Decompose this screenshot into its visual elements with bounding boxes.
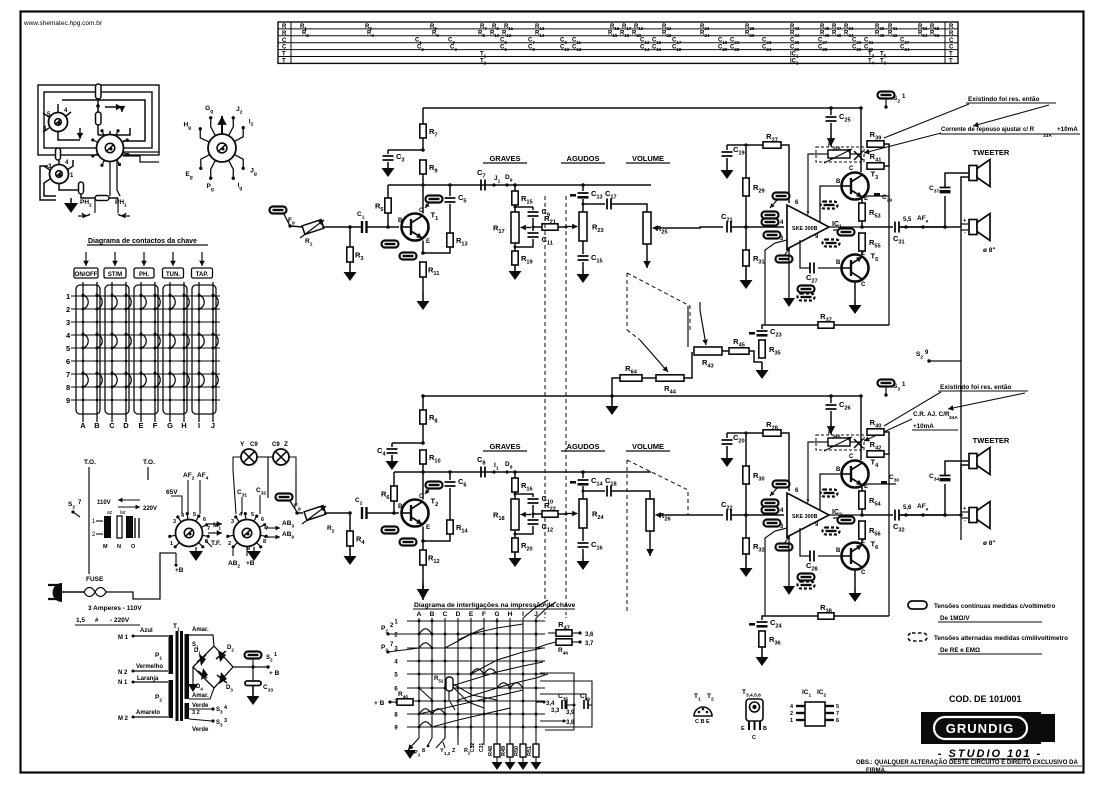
matrix grid verticals — [418, 618, 420, 738]
svg-text:3 Amperes - 110V: 3 Amperes - 110V — [88, 605, 142, 612]
svg-text:1,2: 1,2 — [444, 751, 451, 756]
volume pot R2 slanted — [304, 506, 326, 521]
resistor R16 — [514, 472, 516, 478]
svg-text:R: R — [282, 31, 287, 37]
svg-text:2: 2 — [790, 711, 793, 717]
svg-text:1: 1 — [790, 718, 793, 724]
capacitor C17 to volume — [583, 203, 605, 205]
svg-text:8: 8 — [422, 748, 425, 754]
pills below IC2 — [798, 574, 815, 581]
rotary power switch M1 — [176, 520, 203, 547]
transistor T1 — [402, 214, 429, 241]
svg-text:C: C — [282, 38, 287, 44]
svg-text:C: C — [849, 166, 854, 172]
svg-text:6: 6 — [203, 517, 206, 523]
svg-text:C: C — [949, 38, 954, 44]
resistor R41 — [867, 163, 884, 169]
fan wires from R52 — [453, 684, 497, 700]
svg-text:7: 7 — [207, 526, 210, 532]
IC pin3 wire — [765, 240, 787, 325]
diode D3 — [219, 672, 227, 684]
matrix dots — [418, 620, 421, 623]
svg-text:D: D — [123, 421, 129, 430]
contact bumps — [83, 295, 88, 309]
resistor R42 — [867, 451, 884, 457]
svg-text:VOLUME: VOLUME — [632, 154, 664, 163]
measure pills around IC1 — [773, 193, 790, 200]
resistor R5 base bias — [387, 185, 389, 198]
rotary switch 2 — [234, 520, 261, 547]
capacitor C19 — [726, 145, 728, 150]
svg-text:O: O — [131, 544, 136, 550]
svg-text:A: A — [80, 421, 86, 430]
plug — [53, 583, 63, 602]
matrix right side wires — [540, 673, 574, 730]
wiper wire to output — [663, 227, 723, 228]
svg-text:T: T — [949, 59, 953, 65]
svg-text:3 2: 3 2 — [192, 710, 200, 716]
svg-text:1: 1 — [170, 541, 173, 547]
capacitor C5 — [449, 185, 451, 196]
svg-text:8: 8 — [263, 539, 266, 545]
emitter resistor R54 — [861, 486, 863, 491]
capacitor C13 treble in — [582, 185, 584, 191]
capacitor C9 — [532, 207, 534, 210]
svg-text:ø 8": ø 8" — [983, 247, 995, 254]
svg-text:+ B: + B — [374, 700, 385, 707]
svg-text:3: 3 — [173, 519, 176, 525]
legend dashed pill — [908, 633, 927, 641]
driver network R33A R39 R41 — [860, 108, 862, 172]
svg-text:De RE e EMΩ: De RE e EMΩ — [940, 647, 980, 654]
resistor R20 — [514, 530, 516, 538]
svg-text:Z: Z — [284, 441, 288, 448]
pot R52 inside matrix — [446, 677, 453, 691]
svg-text:Verde: Verde — [192, 703, 209, 709]
potentiometer R17 bass — [514, 205, 516, 212]
T4 base wire — [820, 474, 841, 510]
secondary winding S2-S3 — [185, 703, 190, 719]
svg-text:3,3: 3,3 — [551, 708, 560, 714]
capacitor C23 — [762, 325, 765, 329]
svg-text:C: C — [443, 611, 448, 618]
svg-text:34A: 34A — [949, 415, 958, 421]
svg-text:F: F — [482, 611, 486, 618]
capacitor C28 — [818, 555, 841, 557]
svg-text:-: - — [964, 518, 966, 524]
svg-text:B: B — [398, 504, 403, 510]
resistor R46b — [556, 639, 572, 645]
svg-text:6: 6 — [66, 357, 70, 366]
emitter chain R12 — [422, 527, 424, 542]
resistor R30 — [745, 433, 747, 466]
svg-text:M: M — [103, 544, 108, 550]
capacitor C14 treble in — [582, 472, 584, 478]
measure pill collector with arrow — [426, 196, 443, 203]
svg-text:ST/M: ST/M — [108, 272, 122, 278]
svg-text:3,8: 3,8 — [566, 720, 575, 726]
svg-text:C: C — [109, 421, 115, 430]
DIN connector rotary — [208, 134, 236, 162]
selector contacts — [104, 516, 111, 538]
IC2 pin7 wire up to R34A — [808, 442, 818, 502]
svg-text:C.R. AJ. C/R: C.R. AJ. C/R — [913, 411, 950, 418]
svg-text:+10mA: +10mA — [1057, 126, 1078, 133]
bridge rectifier diamond — [193, 646, 233, 688]
capacitor C22 input — [727, 510, 731, 521]
capacitor C21 input — [727, 222, 731, 233]
diode D4 — [201, 668, 208, 680]
svg-text:R50: R50 — [514, 746, 520, 756]
svg-text:B: B — [836, 260, 841, 266]
svg-text:C9: C9 — [250, 442, 258, 448]
wire from selector cluster to lower input — [267, 457, 269, 498]
svg-text:FUSE: FUSE — [86, 576, 104, 583]
feedback line — [888, 166, 890, 325]
balance pot R43 — [694, 347, 722, 355]
svg-text:Diagrama de contactos da c: Diagrama de contactos da chave — [88, 238, 197, 245]
trimmer R33A — [828, 150, 850, 158]
resistor R38 feedback — [818, 613, 834, 619]
resistor R45 — [722, 350, 729, 352]
svg-text:G: G — [494, 611, 499, 618]
gang dashed lines upper — [544, 196, 546, 610]
volume gang dashed — [626, 273, 628, 330]
svg-text:65V: 65V — [166, 489, 178, 496]
svg-text:Existindo foi res. então: Existindo foi res. então — [968, 96, 1040, 103]
speaker tweeter upper2 — [969, 220, 977, 235]
svg-text:B: B — [430, 611, 435, 618]
svg-text:110V: 110V — [97, 500, 111, 506]
feedback line lower — [888, 454, 890, 616]
svg-text:+B: +B — [175, 567, 184, 574]
svg-text:2: 2 — [66, 305, 70, 314]
svg-text:D: D — [456, 611, 461, 618]
resistor R35 — [759, 340, 765, 358]
resistor R47 — [556, 630, 572, 636]
svg-text:R51: R51 — [527, 746, 533, 756]
matrix bottom left terminals — [408, 738, 419, 750]
svg-text:T: T — [282, 59, 286, 65]
svg-text:+: + — [963, 218, 966, 224]
diode D2 — [218, 650, 226, 662]
IC1 pin7 wire up to R33A — [808, 154, 818, 214]
svg-text:3: 3 — [66, 318, 70, 327]
svg-text:Y: Y — [240, 441, 245, 448]
svg-text:J: J — [211, 421, 215, 430]
capacitor C20 — [726, 433, 728, 438]
resistor R13 — [449, 204, 451, 233]
IC1 left gnd drop — [788, 249, 790, 298]
svg-text:B: B — [94, 421, 100, 430]
potentiometer R24 treble — [582, 491, 584, 499]
svg-text:PH.: PH. — [139, 272, 149, 278]
input from selector F9 — [270, 207, 287, 214]
svg-text:5: 5 — [836, 704, 839, 710]
svg-text:GRUNDIG: GRUNDIG — [946, 721, 1014, 736]
svg-text:ø 8": ø 8" — [983, 540, 995, 547]
switch label TAP. — [201, 252, 203, 266]
switch label ON/OFF — [85, 252, 87, 266]
rotary switch S-b — [50, 165, 69, 184]
svg-text:+B: +B — [246, 560, 255, 567]
speaker feed lower — [943, 513, 947, 517]
svg-text:www.shematec.hpg.com.br: www.shematec.hpg.com.br — [23, 20, 103, 27]
svg-text:6: 6 — [261, 517, 264, 523]
svg-text:E: E — [861, 539, 865, 545]
svg-text:Corrente de repouso ajustar c: Corrente de repouso ajustar c/ R — [941, 127, 1035, 133]
bridge output to +B — [233, 666, 268, 668]
resistor R36 — [759, 631, 765, 647]
capacitor C8 coupling — [481, 467, 485, 478]
svg-text:8: 8 — [66, 383, 70, 392]
volume pot R26 — [646, 499, 654, 531]
svg-text:TAP.: TAP. — [196, 272, 209, 278]
svg-text:T: T — [282, 52, 286, 58]
svg-text:Amar.: Amar. — [192, 627, 209, 633]
svg-text:A: A — [417, 611, 422, 618]
matrix diagonal wires — [523, 600, 548, 618]
svg-text:GRAVES: GRAVES — [489, 154, 520, 163]
title diagrama de interligacoes — [422, 585, 424, 600]
component cross-reference table — [278, 22, 958, 63]
svg-text:5: 5 — [193, 512, 196, 518]
capacitor C6 — [449, 472, 451, 480]
resistor R28 — [727, 432, 763, 434]
svg-text:VOLUME: VOLUME — [632, 442, 664, 451]
resistor R56 — [859, 521, 865, 539]
balance wiper arrow — [640, 340, 668, 372]
svg-text:I: I — [198, 421, 200, 430]
svg-text:Verde: Verde — [192, 727, 209, 733]
svg-text:- STUDIO 101 -: - STUDIO 101 - — [938, 748, 1042, 760]
svg-text:E: E — [426, 239, 430, 245]
capacitor C29 bootstrap — [838, 229, 855, 236]
resistor R37 feedback — [818, 322, 834, 328]
primary winding P1 — [169, 635, 174, 674]
svg-text:7: 7 — [66, 370, 70, 379]
svg-text:G: G — [167, 421, 173, 430]
svg-text:N 2: N 2 — [118, 670, 128, 676]
svg-text:N: N — [117, 544, 121, 550]
resistor R9 — [420, 160, 426, 174]
svg-text:GRAVES: GRAVES — [489, 442, 520, 451]
resistor R4 — [349, 513, 351, 531]
svg-text:1,5: 1,5 — [76, 617, 85, 624]
volume gang dashed lower — [627, 460, 688, 515]
capacitor C2 — [362, 507, 367, 519]
svg-text:Existindo foi res. então: Existindo foi res. então — [940, 384, 1012, 391]
switch label TUN. — [172, 252, 174, 266]
svg-text:TWEETER: TWEETER — [973, 436, 1010, 445]
resistor vertical top pill — [96, 84, 102, 99]
svg-text:N 1: N 1 — [118, 680, 128, 686]
rotary switch S-main — [109, 131, 111, 135]
resistor R39 — [867, 141, 884, 147]
speaker tweeter lower1 — [969, 454, 977, 469]
capacitor C33 — [252, 667, 254, 680]
mid supply rail — [424, 395, 861, 397]
svg-text:B: B — [398, 218, 403, 224]
ground rotary2 — [253, 547, 255, 551]
volume pot R1 slanted — [302, 220, 324, 235]
svg-text:C: C — [861, 570, 866, 576]
capacitor C18 to volume — [583, 490, 605, 492]
svg-text:R48: R48 — [488, 746, 494, 756]
pills below IC1 — [798, 286, 815, 293]
IC2 pin3 wire lower — [765, 528, 787, 616]
resistor R22 — [532, 513, 535, 516]
resistor R6 base — [393, 472, 395, 486]
resistor R29 — [745, 145, 747, 178]
matrix grid horizontals — [407, 620, 545, 622]
svg-text:FIRMA.: FIRMA. — [866, 768, 887, 774]
svg-text:C: C — [861, 282, 866, 288]
collector line T2 — [422, 472, 424, 500]
svg-text:+: + — [963, 506, 966, 512]
capacitor C27 — [818, 267, 841, 269]
svg-text:3,9: 3,9 — [566, 710, 575, 716]
svg-text:R: R — [949, 24, 954, 30]
resistor R32 — [745, 515, 747, 538]
capacitor C15 — [582, 241, 584, 254]
capacitor C26 rail — [830, 396, 832, 403]
capacitor C4 — [392, 442, 423, 444]
svg-text:C32: C32 — [470, 743, 476, 752]
svg-text:C9: C9 — [272, 442, 280, 448]
svg-text:F: F — [153, 421, 158, 430]
measure pill base — [382, 241, 399, 248]
wire bumps row2 — [419, 629, 432, 634]
wires from rotary to box — [62, 100, 145, 141]
svg-text:M 1: M 1 — [118, 635, 129, 641]
resistor R3 — [349, 227, 351, 247]
op-amp IC2 triangle — [787, 493, 829, 537]
capacitor C30 bootstrap — [838, 517, 855, 524]
preamp node rail — [388, 184, 651, 186]
svg-text:M 2: M 2 — [118, 716, 129, 722]
resistor R40 — [867, 429, 884, 435]
resistor R7 — [422, 108, 424, 124]
matrix bottom resistors — [496, 738, 498, 744]
svg-text:TWEETER: TWEETER — [973, 148, 1010, 157]
svg-text:2: 2 — [228, 541, 231, 547]
primary winding P2 — [169, 680, 174, 718]
output node upper — [860, 225, 864, 229]
svg-text:Tensões contínuas medidas c: Tensões contínuas medidas c/voltímetro — [934, 603, 1055, 610]
X adjust mark — [854, 151, 863, 160]
pill resistor left — [56, 148, 61, 160]
svg-text:1: 1 — [66, 292, 70, 301]
svg-text:Tensões alternadas medidas: Tensões alternadas medidas c/milivoltíme… — [934, 635, 1068, 642]
legend solid pill — [908, 601, 927, 609]
capacitor C12 — [532, 514, 534, 518]
pill resistor horizontal — [95, 196, 109, 201]
pill resistor below S-b — [79, 182, 84, 194]
measure pills T2 — [382, 527, 399, 534]
resistor R10 — [420, 450, 426, 464]
svg-text:H: H — [508, 611, 513, 618]
svg-text:1: 1 — [274, 652, 277, 658]
svg-text:3,6: 3,6 — [585, 632, 594, 638]
capacitor C1 — [350, 226, 362, 228]
svg-text:OBS.: QUALQUER ALTERAÇÃO DESTE: OBS.: QUALQUER ALTERAÇÃO DESTE CIRCUITO … — [856, 758, 1078, 766]
wiper wire to output lower — [666, 514, 723, 516]
svg-text:7: 7 — [836, 711, 839, 717]
resistor R8 — [422, 396, 424, 410]
svg-text:COD. DE 101/001: COD. DE 101/001 — [949, 694, 1022, 704]
arrow down-left — [79, 128, 81, 139]
svg-text:Amar.: Amar. — [192, 693, 209, 699]
svg-text:Azul: Azul — [140, 628, 153, 634]
capacitor C3 bypass — [388, 149, 423, 151]
svg-text:+10mA: +10mA — [913, 423, 934, 430]
capacitor C7 coupling — [481, 180, 485, 191]
svg-text:H: H — [181, 421, 186, 430]
measure pills around IC2 — [773, 481, 790, 488]
svg-text:B: B — [836, 548, 841, 554]
driver network lower R40 R42 R34A — [860, 396, 862, 460]
IC2 left gnd drop — [788, 537, 790, 586]
svg-text:7: 7 — [265, 526, 268, 532]
node input lower — [348, 511, 352, 515]
capacitor C11 — [532, 227, 534, 231]
input connector F8 — [276, 494, 293, 501]
switch label PH. — [143, 252, 145, 266]
svg-text:3: 3 — [224, 718, 227, 724]
svg-text:R: R — [282, 24, 287, 30]
svg-text:- 220V: - 220V — [110, 617, 130, 624]
potentiometer R23 treble — [582, 204, 584, 212]
svg-text:T.F.: T.F. — [211, 540, 221, 547]
svg-text:az: az — [107, 510, 113, 516]
output coupling to speaker — [862, 226, 893, 228]
switch label ST/M — [114, 252, 116, 266]
arrow into bus — [105, 106, 122, 108]
svg-text:lar: lar — [120, 510, 126, 516]
resistor vertical second pill — [96, 112, 102, 125]
svg-text:+ B: + B — [269, 670, 280, 677]
supply tap S2 — [859, 106, 863, 110]
svg-text:B: B — [836, 179, 841, 185]
collector line — [422, 185, 424, 214]
svg-text:E: E — [864, 196, 868, 202]
svg-text:5,5: 5,5 — [903, 217, 912, 223]
diode D1 — [199, 654, 206, 666]
svg-text:9: 9 — [66, 396, 70, 405]
ground — [70, 198, 72, 203]
speaker common line down — [960, 227, 962, 512]
svg-text:R: R — [949, 31, 954, 37]
capacitor C25 rail — [830, 108, 832, 115]
svg-text:TUN.: TUN. — [166, 272, 180, 278]
svg-text:Laranja: Laranja — [137, 676, 159, 682]
transistor T5 — [842, 255, 869, 282]
secondary winding S1 — [185, 634, 190, 699]
svg-text:C: C — [752, 735, 756, 741]
svg-text:B: B — [763, 726, 767, 732]
op-amp IC1 triangle — [787, 205, 829, 249]
svg-text:5: 5 — [66, 344, 70, 353]
svg-text:C: C — [282, 45, 287, 51]
transistor T3 — [842, 173, 869, 200]
output coupling to speaker lower — [862, 514, 893, 516]
svg-text:6: 6 — [836, 718, 839, 724]
speaker tweeter upper1 — [969, 166, 977, 181]
svg-text:E: E — [426, 525, 430, 531]
emitter chain R11 — [422, 241, 424, 254]
speaker common junction — [959, 513, 962, 516]
